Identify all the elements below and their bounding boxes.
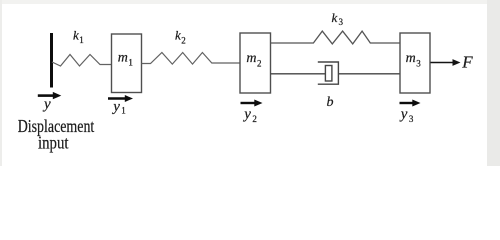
svg-text:y: y bbox=[399, 107, 408, 123]
svg-text:2: 2 bbox=[257, 58, 262, 68]
svg-text:1: 1 bbox=[128, 57, 133, 67]
svg-text:m: m bbox=[246, 51, 256, 66]
svg-text:y: y bbox=[242, 107, 251, 123]
svg-text:b: b bbox=[327, 95, 334, 110]
svg-text:3: 3 bbox=[416, 59, 421, 69]
svg-text:k: k bbox=[332, 10, 338, 25]
svg-text:m: m bbox=[406, 51, 416, 66]
damper b cylinder bbox=[318, 62, 339, 84]
mass m3 bbox=[400, 33, 430, 93]
spring k2 bbox=[142, 53, 241, 65]
svg-text:k: k bbox=[175, 28, 181, 43]
svg-text:3: 3 bbox=[339, 17, 344, 27]
svg-text:2: 2 bbox=[181, 36, 186, 46]
svg-text:2: 2 bbox=[252, 114, 257, 124]
wire m2 to damper bbox=[271, 73, 327, 75]
spring k3 bbox=[271, 31, 401, 44]
svg-text:m: m bbox=[118, 50, 128, 65]
arrow y3 bbox=[400, 102, 414, 104]
arrow y2 bbox=[241, 102, 256, 104]
arrow y1 bbox=[108, 97, 126, 99]
svg-text:3: 3 bbox=[409, 114, 414, 124]
damper b piston bbox=[325, 66, 332, 82]
wall bbox=[50, 33, 53, 88]
arrow y bbox=[38, 94, 54, 97]
svg-text:1: 1 bbox=[121, 105, 126, 115]
svg-text:1: 1 bbox=[79, 35, 84, 45]
force F arrow bbox=[431, 62, 454, 64]
spring k1 bbox=[52, 55, 112, 67]
svg-text:input: input bbox=[38, 132, 69, 152]
svg-text:k: k bbox=[73, 28, 79, 43]
mass m1 bbox=[112, 34, 142, 93]
wire damper to m3 bbox=[338, 73, 400, 75]
svg-text:y: y bbox=[42, 97, 51, 113]
svg-text:y: y bbox=[111, 99, 120, 115]
mass m2 bbox=[240, 33, 271, 93]
svg-text:F: F bbox=[461, 53, 473, 72]
